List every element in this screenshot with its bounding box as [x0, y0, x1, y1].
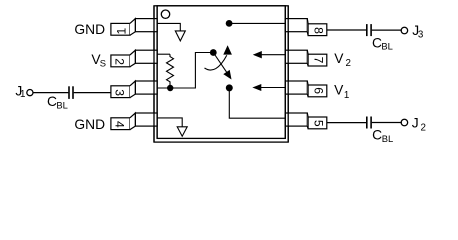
svg-text:GND: GND: [74, 117, 105, 132]
svg-text:2: 2: [421, 122, 426, 133]
svg-text:8: 8: [312, 27, 326, 34]
svg-text:2: 2: [113, 58, 127, 65]
svg-text:C: C: [372, 128, 382, 143]
svg-text:BL: BL: [382, 133, 393, 144]
svg-text:5: 5: [312, 120, 326, 127]
svg-text:2: 2: [346, 58, 351, 69]
svg-text:BL: BL: [56, 99, 67, 110]
svg-text:J: J: [412, 116, 419, 131]
svg-text:V: V: [334, 83, 344, 98]
svg-text:4: 4: [113, 121, 127, 128]
svg-text:7: 7: [312, 57, 326, 64]
svg-text:S: S: [100, 58, 106, 69]
svg-text:3: 3: [418, 30, 424, 41]
svg-text:1: 1: [20, 89, 25, 100]
svg-text:V: V: [334, 51, 344, 66]
svg-text:3: 3: [113, 89, 127, 96]
svg-text:BL: BL: [381, 41, 392, 52]
svg-text:1: 1: [114, 27, 128, 34]
svg-text:6: 6: [312, 87, 326, 94]
svg-text:GND: GND: [74, 22, 105, 37]
svg-text:1: 1: [344, 90, 349, 101]
